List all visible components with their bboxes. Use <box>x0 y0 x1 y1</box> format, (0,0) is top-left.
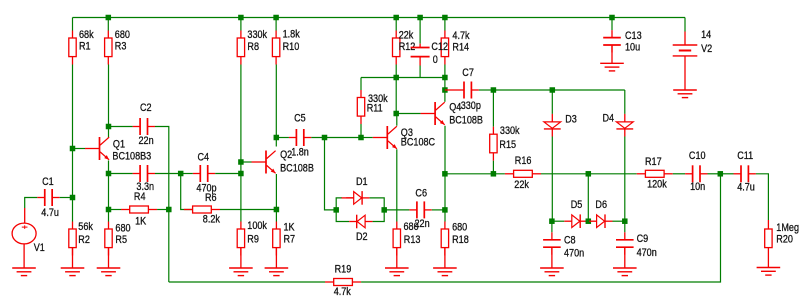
svg-text:R19: R19 <box>335 264 352 276</box>
junction R4 right <box>166 207 172 213</box>
junction D5/D6 middle <box>586 218 592 224</box>
wire R3 top stub <box>107 18 109 31</box>
resistor R14 <box>441 30 469 64</box>
wire R14 top stub <box>444 18 446 31</box>
svg-text:R17: R17 <box>645 156 662 168</box>
svg-text:Q4: Q4 <box>449 102 462 114</box>
svg-text:1Meg: 1Meg <box>776 222 799 234</box>
svg-text:C9: C9 <box>637 233 649 245</box>
wire R5 to ground <box>108 248 110 268</box>
wire D6 right stub <box>613 220 625 222</box>
wire D-pair to C6 <box>384 209 409 211</box>
capacitor C1 <box>37 176 59 219</box>
svg-text:C12: C12 <box>431 41 448 53</box>
wire C9 to ground <box>624 247 626 268</box>
svg-text:680: 680 <box>452 222 468 234</box>
wire mid tap down <box>587 174 589 221</box>
junction C3 left <box>106 171 112 177</box>
junction C5 left tap <box>274 135 280 141</box>
junction C3-C4 node <box>178 171 184 177</box>
resistor R5 <box>105 222 131 256</box>
junction C5 branch <box>322 135 328 141</box>
junction rail-R14 <box>442 15 448 21</box>
wire R11 bottom to C5 node <box>360 124 362 138</box>
ground R20 <box>757 268 781 276</box>
svg-text:BC108C: BC108C <box>401 137 435 149</box>
capacitor C10 <box>685 150 707 193</box>
svg-text:68k: 68k <box>79 29 94 41</box>
resistor R12 <box>393 30 416 65</box>
junction rail-R3 <box>106 15 112 21</box>
wire D2 right corner <box>373 210 385 222</box>
transistor Q3 <box>373 126 435 149</box>
svg-text:680: 680 <box>115 223 131 235</box>
junction rail-R12 <box>393 15 399 21</box>
wire C5 node down to D1/D2 <box>325 138 337 210</box>
resistor R19 <box>325 264 361 299</box>
resistor R6 <box>184 193 220 226</box>
resistor R1 <box>69 29 94 64</box>
svg-text:C6: C6 <box>415 188 427 200</box>
junction D1/D2 right <box>381 207 387 213</box>
capacitor C13 <box>603 18 642 54</box>
wire C5 right <box>311 137 361 139</box>
wire C6 right <box>432 209 445 211</box>
wire C2 left <box>109 126 133 128</box>
svg-text:330k: 330k <box>247 29 267 41</box>
wire Q1 base <box>73 148 86 150</box>
wire bottom feedback rail right <box>361 174 720 282</box>
svg-text:330p: 330p <box>461 100 482 112</box>
wire D1 right corner <box>370 198 385 210</box>
wire R4 left <box>109 209 122 211</box>
svg-text:8.2k: 8.2k <box>203 214 220 226</box>
wire D3 vertical <box>551 90 553 114</box>
wire Q1 emitter vertical <box>108 161 110 222</box>
wire node A vertical (R1-C1-R2-Q1 base) <box>72 65 74 222</box>
resistor R10 <box>272 29 299 65</box>
wire C5 left <box>276 137 289 139</box>
svg-text:R15: R15 <box>499 139 516 151</box>
wire R8 down to R9 (Q2 base node) <box>240 65 242 222</box>
wire R10 top stub <box>275 18 277 31</box>
wire C3 right <box>155 173 181 175</box>
svg-text:R10: R10 <box>283 41 300 53</box>
resistor R16 <box>505 155 541 191</box>
wire R12 top stub <box>395 18 397 31</box>
capacitor C2 <box>133 102 155 147</box>
svg-text:D6: D6 <box>595 199 607 211</box>
capacitor C7 <box>457 67 482 112</box>
svg-text:C2: C2 <box>140 102 152 114</box>
wire C8 to ground <box>551 247 553 268</box>
svg-text:56k: 56k <box>78 221 93 233</box>
wire V+ rail <box>73 17 686 19</box>
node A junction at C1 <box>70 195 76 201</box>
wire C7 node to D3/D4 <box>493 89 624 91</box>
svg-text:R13: R13 <box>404 234 421 246</box>
wire R12 down <box>395 65 397 114</box>
svg-text:1.8n: 1.8n <box>291 147 309 159</box>
junction rail-C12 <box>417 15 423 21</box>
ground V2 <box>673 90 697 98</box>
svg-text:330k: 330k <box>500 126 520 138</box>
resistor R4 <box>121 191 157 227</box>
ground R9 <box>229 268 253 276</box>
svg-text:BC108B: BC108B <box>280 163 314 175</box>
diode D5 <box>564 199 587 228</box>
svg-text:V1: V1 <box>34 242 46 254</box>
junction Q4 base / Q3 collector <box>393 111 399 117</box>
diode D2 <box>349 215 372 243</box>
transistor Q2 <box>252 150 315 175</box>
svg-text:4.7k: 4.7k <box>334 286 351 298</box>
resistor R7 <box>273 222 296 256</box>
capacitor C6 <box>409 188 431 231</box>
wire rail corner to V2 <box>684 18 686 32</box>
svg-text:C10: C10 <box>689 150 706 162</box>
svg-text:C13: C13 <box>625 30 642 42</box>
junction D3 top <box>550 87 556 93</box>
junction R14 line at y77 <box>442 75 448 81</box>
svg-text:D4: D4 <box>603 113 615 125</box>
junction Q2 emitter / R7 <box>274 207 280 213</box>
ground C9 <box>613 268 637 276</box>
ground R13 <box>385 268 409 276</box>
capacitor C11 <box>734 150 756 193</box>
svg-text:V2: V2 <box>701 43 713 55</box>
transistor Q1 <box>85 137 152 163</box>
svg-text:D3: D3 <box>565 114 577 126</box>
svg-text:1K: 1K <box>284 222 295 234</box>
svg-text:C4: C4 <box>198 152 210 164</box>
svg-text:R1: R1 <box>79 41 91 53</box>
resistor R20 <box>765 220 799 268</box>
svg-text:R8: R8 <box>247 41 259 53</box>
wire Q3 emitter down to R13 <box>396 149 398 221</box>
resistor R9 <box>237 220 267 255</box>
svg-text:C5: C5 <box>294 113 306 125</box>
svg-text:22n: 22n <box>139 135 154 147</box>
junction rail-C13 <box>609 15 615 21</box>
wire dogleg C3/C4 node down to R6 <box>181 174 193 210</box>
wire Q2 emitter down <box>275 174 277 222</box>
svg-text:4.7u: 4.7u <box>41 207 59 219</box>
diode D4 <box>603 113 634 137</box>
wire R14 down to Q4 collector <box>444 65 446 102</box>
svg-text:R20: R20 <box>776 234 793 246</box>
svg-text:R5: R5 <box>115 234 127 246</box>
wire C3 left <box>109 173 133 175</box>
wire R3 to Q1 collector <box>108 65 110 138</box>
transistor Q4 <box>421 102 484 127</box>
wire Q3 base <box>361 137 373 139</box>
wire R13 to ground <box>396 248 398 268</box>
svg-text:D1: D1 <box>356 176 368 188</box>
ground V1 <box>12 268 36 276</box>
svg-text:R16: R16 <box>515 155 532 167</box>
svg-text:680: 680 <box>404 221 420 233</box>
svg-text:680: 680 <box>115 29 131 41</box>
ground R5 <box>97 268 121 276</box>
wire bottom feedback rail left <box>169 281 325 283</box>
svg-text:100k: 100k <box>247 220 267 232</box>
wire Q2 base <box>241 161 252 163</box>
junction C7 right / R15 <box>491 87 497 93</box>
resistor R18 <box>441 222 469 256</box>
resistor R11 <box>357 78 387 125</box>
junction D5/D6 mid tap <box>586 171 592 177</box>
junction R15/R16 <box>491 171 497 177</box>
wire Q4 emitter down <box>444 126 446 222</box>
junction rail-R8 <box>238 15 244 21</box>
wire C10 right <box>708 173 721 175</box>
wire R1 top stub <box>72 18 74 31</box>
battery V2 <box>673 29 713 90</box>
wire C2 right to corner <box>155 127 169 283</box>
svg-text:R18: R18 <box>452 234 469 246</box>
wire y77 bias rail <box>361 77 445 79</box>
svg-text:R14: R14 <box>452 42 469 54</box>
wire D2 branch left <box>336 210 349 222</box>
junction C10/C11 node <box>718 171 724 177</box>
capacitor C9 <box>616 221 657 259</box>
ground R18 <box>433 268 457 276</box>
resistor R13 <box>393 221 421 255</box>
resistor R8 <box>237 29 267 64</box>
wire C1 left corner to V1 <box>25 198 38 209</box>
svg-text:0: 0 <box>433 54 438 66</box>
wire C13 to ground <box>611 45 613 63</box>
svg-text:R9: R9 <box>247 234 259 246</box>
label C12 value <box>431 41 448 66</box>
wire C11 right corner to R20 <box>756 174 769 220</box>
junction R4 left / R5 <box>106 207 112 213</box>
wire C7 left <box>445 89 457 91</box>
svg-text:C8: C8 <box>564 235 576 247</box>
wire R18 to ground <box>444 248 446 268</box>
resistor R17 <box>637 156 673 190</box>
svg-text:10n: 10n <box>690 181 705 193</box>
wire R16 row left <box>445 173 505 175</box>
wire D1 branch left <box>336 198 342 210</box>
wire C4 right <box>215 173 241 175</box>
wire D4 corner down <box>624 90 626 114</box>
junction R15/R16 row <box>442 171 448 177</box>
svg-text:1K: 1K <box>135 216 146 228</box>
wire R6 right <box>220 209 276 211</box>
svg-text:Q1: Q1 <box>113 139 126 151</box>
svg-text:D2: D2 <box>356 231 368 243</box>
junction D5 left / C8 <box>549 218 555 224</box>
ground C8 <box>540 268 564 276</box>
node A junction at Q1 base <box>70 146 76 152</box>
wire D4 down to D6 node <box>624 137 626 222</box>
voltage source V1 <box>12 208 45 268</box>
wire Q3 collector up <box>396 114 398 126</box>
svg-text:C7: C7 <box>462 67 474 79</box>
wire C7 right <box>479 89 494 91</box>
wire Q4 base <box>396 113 420 115</box>
diode D6 <box>589 199 612 228</box>
junction C2 tap <box>106 124 112 130</box>
capacitor C3 <box>133 165 155 193</box>
svg-text:120k: 120k <box>647 179 667 191</box>
wire R10 down to Q2 collector <box>275 65 277 147</box>
junction C4 right <box>238 171 244 177</box>
junction rail-R10 <box>273 15 279 21</box>
svg-text:BC108B: BC108B <box>449 115 483 127</box>
junction D1/D2 left <box>333 207 339 213</box>
svg-text:D5: D5 <box>571 199 583 211</box>
svg-text:R11: R11 <box>367 103 383 115</box>
resistor R2 <box>69 221 93 255</box>
svg-text:14: 14 <box>701 29 712 41</box>
svg-text:BC108B3: BC108B3 <box>112 151 151 163</box>
wire R2 to ground <box>72 248 74 268</box>
svg-text:R4: R4 <box>134 191 146 203</box>
junction C7 tap <box>442 87 448 93</box>
junction D6 right / C9 <box>622 218 628 224</box>
svg-text:R3: R3 <box>115 41 127 53</box>
svg-text:22k: 22k <box>399 30 414 42</box>
svg-text:1.8k: 1.8k <box>283 29 300 41</box>
svg-text:470n: 470n <box>564 248 584 260</box>
wire D3 down to D5 node <box>551 137 553 222</box>
svg-text:R2: R2 <box>78 234 90 246</box>
capacitor C5 <box>289 113 311 159</box>
resistor R15 <box>490 90 520 161</box>
wire R15 bottom <box>492 161 494 174</box>
svg-text:4.7u: 4.7u <box>737 182 755 194</box>
diode D1 <box>342 176 370 204</box>
ground R7 <box>265 268 289 276</box>
junction C6 right / R18 <box>442 207 448 213</box>
wire C11 left <box>720 173 733 175</box>
capacitor C12 <box>411 18 430 78</box>
junction Q2 base tap <box>238 159 244 165</box>
wire R16 to R17 <box>541 173 637 175</box>
capacitor C4 <box>193 152 217 195</box>
svg-text:4.7k: 4.7k <box>452 30 469 42</box>
svg-text:R7: R7 <box>284 234 296 246</box>
svg-text:22k: 22k <box>514 179 529 191</box>
svg-text:10u: 10u <box>625 42 640 54</box>
wire D5 left stub <box>552 220 564 222</box>
svg-text:R6: R6 <box>205 193 217 205</box>
junction C5 right / R11 / Q3 base <box>358 135 364 141</box>
capacitor C8 <box>543 221 584 260</box>
wire R8 top stub <box>240 18 242 31</box>
resistor R3 <box>105 29 131 64</box>
svg-text:470n: 470n <box>637 248 657 260</box>
svg-text:C1: C1 <box>42 176 54 188</box>
wire R17 to C10 <box>673 173 685 175</box>
ground C13 <box>600 63 624 71</box>
diode D3 <box>544 114 577 137</box>
svg-text:C11: C11 <box>737 150 753 162</box>
wire C4 left <box>181 173 193 175</box>
ground R2 <box>61 268 85 276</box>
wire R9 to ground <box>240 248 242 268</box>
wire R7 to ground <box>275 248 277 268</box>
junction R12 line at y77 <box>393 75 399 81</box>
wire C1 right <box>60 197 73 199</box>
wire R4 right <box>157 209 169 211</box>
